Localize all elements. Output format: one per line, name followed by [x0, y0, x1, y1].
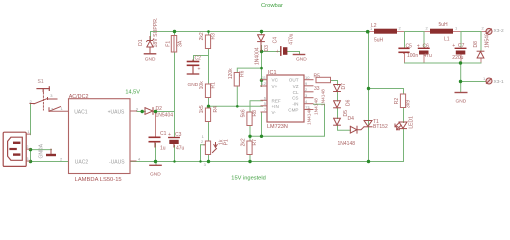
svg-text:C5: C5 [406, 44, 413, 50]
ground under C4 [293, 54, 304, 56]
switch pole 1 [30, 98, 57, 104]
node C4 junction [260, 50, 263, 53]
wire IEC pins tie [30, 150, 32, 162]
svg-text:R6: R6 [239, 70, 245, 77]
svg-text:47u: 47u [176, 145, 185, 151]
wire D2 row [137, 111, 145, 113]
node R3 top [207, 30, 210, 33]
wire R1 bottom to +IN [208, 98, 210, 106]
svg-text:+UAUS: +UAUS [108, 109, 125, 115]
svg-text:+: + [417, 44, 420, 50]
wire C1 branch [155, 112, 157, 137]
svg-text:33: 33 [314, 86, 320, 92]
svg-text:+: + [198, 67, 201, 73]
wire R3 top to rail [208, 32, 210, 36]
connector X3-2 [486, 28, 492, 34]
svg-text:5uH: 5uH [439, 22, 449, 28]
diode D2 [145, 108, 153, 115]
svg-text:REF: REF [272, 98, 281, 103]
node T1 column top [366, 30, 370, 34]
inductor L2 [374, 29, 397, 34]
LED LED1 [395, 122, 407, 130]
capacitor C7 [455, 48, 466, 54]
svg-text:P1: P1 [223, 139, 229, 145]
wire P1 bottom to rail [208, 155, 210, 162]
svg-text:10: 10 [305, 75, 310, 80]
capacitor C6 [419, 48, 430, 54]
svg-text:C6: C6 [423, 44, 430, 50]
switch pole 2 [49, 107, 61, 112]
wire D6 D5 [337, 108, 339, 118]
svg-text:R2: R2 [394, 98, 400, 105]
svg-text:LM723N: LM723N [267, 124, 288, 130]
svg-text:D8: D8 [473, 41, 479, 48]
svg-text:LED1: LED1 [408, 116, 414, 129]
ground under D1 [144, 53, 155, 55]
svg-text:470u: 470u [289, 33, 295, 44]
svg-text:AC/DC2: AC/DC2 [69, 94, 89, 100]
svg-text:R4: R4 [213, 106, 219, 113]
svg-text:R1: R1 [211, 82, 217, 89]
svg-text:+: + [168, 132, 171, 138]
svg-text:GND: GND [456, 98, 467, 104]
svg-text:5uH: 5uH [374, 38, 384, 44]
diode D5 [334, 118, 341, 125]
svg-text:1N4148: 1N4148 [320, 89, 326, 106]
wire D3 V+ column [261, 32, 263, 35]
wire R6 top [237, 68, 261, 73]
op-amp regulator IC1 LM723N [267, 75, 304, 122]
svg-text:V+: V+ [272, 84, 278, 89]
resistor R1 [205, 84, 210, 98]
node D3 top [260, 30, 263, 33]
wire module GND stub [155, 162, 157, 166]
svg-text:1u: 1u [160, 145, 166, 151]
wire top rail [151, 31, 368, 33]
svg-text:-IN: -IN [292, 102, 298, 107]
wire F1 column down to D2 node [174, 32, 176, 36]
wire filter ground bus [404, 54, 406, 63]
capacitor C2 [188, 60, 199, 74]
svg-text:1N5404: 1N5404 [156, 113, 174, 119]
svg-text:C4: C4 [272, 37, 278, 44]
node C7 gnd bus [459, 61, 462, 64]
svg-text:C7: C7 [458, 43, 465, 49]
svg-text:R8: R8 [252, 110, 258, 117]
svg-text:1N4148: 1N4148 [306, 108, 312, 125]
svg-text:2k2: 2k2 [241, 138, 247, 146]
svg-text:GND: GND [188, 82, 199, 88]
node C3 bottom rail [173, 160, 175, 162]
node D2 cathode C1 [154, 110, 157, 113]
svg-text:C1: C1 [160, 131, 167, 137]
wire R8 R7 junction row [249, 126, 251, 142]
svg-text:100n: 100n [407, 53, 418, 59]
svg-text:V-: V- [272, 110, 277, 115]
wire to R2 [369, 89, 404, 95]
wire rail drop to D1 [150, 32, 152, 41]
svg-text:+IN: +IN [272, 104, 279, 109]
wire R3 bottom / C2 / R1 [208, 49, 210, 85]
resistor R8 [247, 112, 252, 126]
svg-text:IC1: IC1 [268, 70, 277, 76]
resistor R3 [205, 35, 210, 49]
wire V- drop [261, 113, 263, 137]
svg-text:GND: GND [145, 57, 156, 63]
svg-text:GNDA: GNDA [39, 143, 45, 158]
svg-text:D3: D3 [264, 45, 270, 52]
svg-text:CMP: CMP [288, 108, 298, 113]
node R8 R7 midpoint [248, 135, 251, 138]
svg-text:47u: 47u [424, 53, 433, 59]
resistor R6 [234, 73, 239, 87]
wire R7 bottom [249, 155, 251, 162]
svg-text:220u: 220u [452, 55, 463, 61]
svg-text:S1: S1 [38, 79, 44, 85]
wire REF to R8 [250, 101, 263, 113]
node R6 bottom [236, 105, 239, 108]
resistor R5 [316, 77, 331, 82]
fuse F1 [171, 36, 176, 53]
ground under module [150, 164, 161, 166]
svg-text:15V ingesteld: 15V ingesteld [231, 175, 265, 181]
svg-text:R7: R7 [252, 139, 258, 146]
svg-text:3k9: 3k9 [406, 100, 412, 108]
svg-text:X3-1: X3-1 [494, 79, 504, 85]
diode D8 [477, 51, 484, 58]
potentiometer P1 [205, 141, 210, 155]
diode D3 [258, 35, 265, 51]
svg-text:1N4148: 1N4148 [338, 141, 356, 147]
wire R4 to P1 [208, 122, 210, 142]
svg-text:14,5V: 14,5V [125, 90, 140, 96]
diode D7 [334, 85, 341, 92]
IEC pin stubs [27, 134, 30, 161]
svg-text:C2: C2 [195, 56, 202, 62]
svg-text:1k5: 1k5 [199, 105, 205, 113]
IC1 pin stubs right [304, 80, 313, 110]
IEC mains connector [3, 132, 26, 166]
svg-text:BT152: BT152 [373, 124, 388, 130]
svg-text:LAMBDA LS50-15: LAMBDA LS50-15 [75, 177, 122, 183]
earth symbol GNDA [50, 149, 52, 154]
svg-text:R5: R5 [314, 74, 321, 80]
node P1 wiper rail [199, 160, 201, 162]
capacitor C4 [281, 47, 288, 55]
node divider junction [207, 105, 210, 108]
wire OUT to D7 [331, 81, 338, 86]
ground right [455, 92, 467, 94]
svg-text:F1: F1 [165, 41, 171, 47]
suppressor diode D1 [147, 37, 154, 54]
svg-text:3A: 3A [177, 40, 183, 47]
svg-text:CS: CS [292, 96, 298, 101]
module pin 3 [130, 110, 137, 112]
wire L2 taps C5 [404, 32, 406, 49]
diode D6 [334, 101, 341, 108]
wire D7 D6 [337, 92, 339, 101]
svg-text:UAC2: UAC2 [75, 160, 89, 166]
svg-text:OUT: OUT [289, 78, 299, 83]
inductor L1 [430, 29, 453, 34]
node F1 top [173, 30, 176, 33]
wire C4 row to GND [262, 51, 281, 53]
svg-text:12: 12 [262, 81, 267, 86]
resistor R7 [247, 141, 252, 155]
wire R2 to LED [403, 108, 405, 123]
wire C6 tap [423, 32, 425, 49]
wire IEC middle pin to GNDA [31, 149, 52, 151]
svg-text:D6: D6 [346, 99, 352, 106]
svg-text:18V SUPPR.: 18V SUPPR. [153, 18, 159, 48]
svg-text:X3-2: X3-2 [494, 28, 504, 34]
wire right gnd drop [460, 63, 462, 93]
svg-text:2k2: 2k2 [199, 32, 205, 40]
node IEC bottom pin [29, 160, 32, 163]
node R2 branch [367, 87, 370, 90]
svg-text:D4: D4 [348, 116, 355, 122]
diode D4 [350, 126, 357, 133]
wire R6 bottom [236, 87, 238, 107]
node V- join [260, 135, 263, 138]
capacitor C1 [149, 137, 159, 147]
node IEC middle pin [29, 148, 32, 151]
IC1 pin stubs left [261, 80, 268, 112]
wire bottom rail left segment [31, 161, 70, 163]
svg-text:D2: D2 [156, 106, 163, 112]
wire D5 to D4 [338, 126, 351, 131]
svg-text:+: + [276, 49, 279, 55]
resistor R2 [400, 94, 405, 108]
node R7 bottom rail [248, 160, 251, 163]
node R6 top tap [260, 67, 263, 70]
svg-text:R3: R3 [211, 33, 217, 40]
node X3-1 branch [459, 80, 462, 83]
wire X3-1 row [461, 81, 487, 83]
wire T1 anode column [368, 32, 370, 162]
thyristor T1 [357, 121, 372, 130]
svg-text:D7: D7 [341, 83, 347, 90]
svg-text:D1: D1 [138, 39, 144, 46]
svg-text:GND: GND [296, 56, 307, 62]
ground under C2 [187, 73, 198, 75]
wire P1 wiper to rail [201, 145, 204, 162]
wire IEC top pin up to switch [30, 104, 32, 135]
wire C3 bottom [174, 146, 176, 162]
wire LED to bottom rail [403, 129, 405, 161]
capacitor C5 [399, 48, 409, 53]
svg-text:1N4148: 1N4148 [313, 98, 319, 115]
svg-text:C3: C3 [175, 132, 182, 138]
svg-text:5k6: 5k6 [241, 109, 247, 117]
capacitor C3 [169, 138, 179, 148]
wire bottom rail [131, 161, 404, 163]
node VC tap [260, 79, 263, 82]
svg-text:GND: GND [150, 171, 161, 177]
module pin 1 [49, 110, 69, 112]
svg-text:120k: 120k [228, 68, 234, 79]
wire D8 tap [480, 32, 482, 52]
connector X3-1 [486, 78, 492, 84]
svg-text:+: + [452, 43, 455, 49]
wire C7 tap [460, 32, 462, 49]
svg-text:VZ: VZ [293, 84, 299, 89]
node P1 bottom rail [207, 160, 210, 163]
power module AC/DC2 [69, 99, 131, 174]
svg-text:CL: CL [293, 90, 299, 95]
svg-text:VC: VC [272, 78, 279, 83]
module pin 4 [130, 160, 136, 162]
node C1 bottom rail [154, 160, 157, 163]
svg-text:L1: L1 [444, 37, 450, 43]
svg-text:10k: 10k [199, 81, 205, 90]
svg-text:UAC1: UAC1 [74, 109, 88, 115]
svg-text:Crowbar: Crowbar [261, 3, 283, 9]
node T1 cathode rail [367, 160, 370, 163]
svg-text:1N4004: 1N4004 [254, 47, 260, 65]
svg-text:-UAUS: -UAUS [109, 160, 125, 166]
resistor R4 [205, 108, 210, 122]
node D2 anode [141, 110, 144, 113]
